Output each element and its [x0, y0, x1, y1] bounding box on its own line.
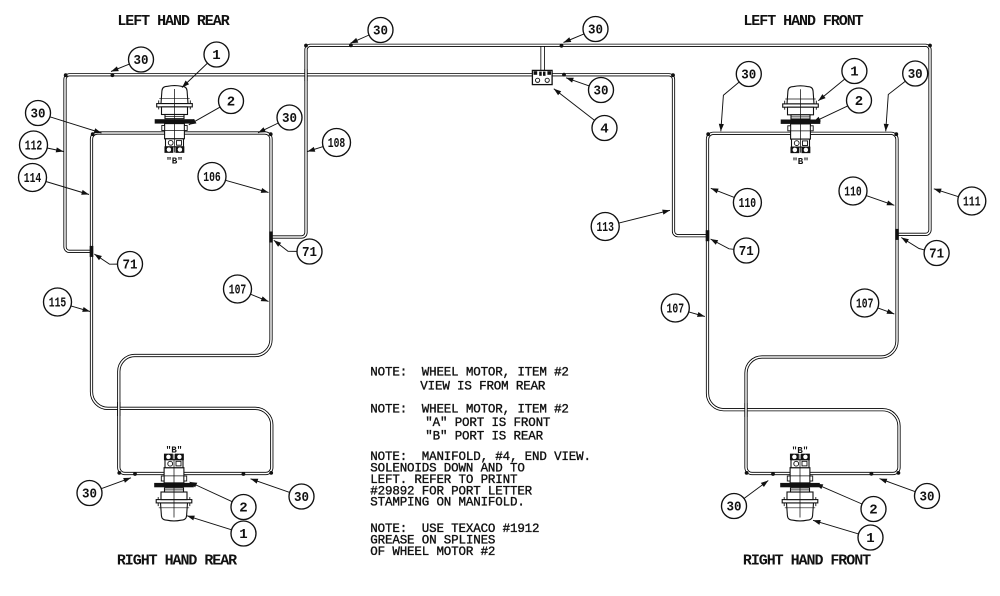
svg-text:106: 106: [203, 170, 221, 186]
svg-text:NOTE: WHEEL MOTOR, ITEM #2: NOTE: WHEEL MOTOR, ITEM #2: [370, 403, 568, 417]
svg-text:LEFT HAND REAR: LEFT HAND REAR: [117, 13, 229, 30]
svg-text:107: 107: [229, 283, 247, 299]
svg-text:113: 113: [596, 220, 614, 236]
svg-text:71: 71: [739, 244, 754, 260]
svg-text:1: 1: [866, 531, 874, 547]
svg-text:114: 114: [24, 171, 42, 187]
svg-text:110: 110: [739, 196, 757, 212]
svg-text:RIGHT HAND REAR: RIGHT HAND REAR: [117, 553, 237, 570]
svg-text:30: 30: [741, 68, 756, 84]
svg-text:NOTE: WHEEL MOTOR, ITEM #2: NOTE: WHEEL MOTOR, ITEM #2: [370, 366, 568, 380]
svg-text:"B": "B": [792, 445, 809, 456]
svg-text:111: 111: [963, 195, 981, 211]
svg-text:VIEW IS FROM REAR: VIEW IS FROM REAR: [420, 379, 546, 393]
svg-text:30: 30: [282, 111, 297, 127]
svg-text:30: 30: [31, 107, 46, 123]
svg-text:30: 30: [908, 67, 923, 83]
svg-text:2: 2: [227, 95, 235, 111]
svg-text:30: 30: [727, 500, 742, 516]
svg-text:108: 108: [328, 136, 346, 152]
svg-text:"A" PORT IS FRONT: "A" PORT IS FRONT: [425, 416, 551, 430]
svg-text:112: 112: [25, 139, 43, 155]
svg-text:30: 30: [920, 490, 935, 506]
svg-text:2: 2: [855, 94, 863, 110]
svg-text:71: 71: [302, 245, 317, 261]
svg-text:4: 4: [600, 122, 608, 138]
svg-text:115: 115: [49, 296, 67, 312]
svg-text:2: 2: [239, 501, 247, 517]
svg-text:LEFT HAND FRONT: LEFT HAND FRONT: [743, 13, 863, 30]
svg-text:1: 1: [212, 48, 220, 64]
svg-text:30: 30: [134, 53, 149, 69]
svg-text:"B": "B": [792, 156, 809, 167]
svg-text:30: 30: [588, 23, 603, 39]
svg-text:71: 71: [123, 258, 138, 274]
svg-text:"B" PORT IS REAR: "B" PORT IS REAR: [425, 429, 543, 443]
svg-text:OF WHEEL MOTOR #2: OF WHEEL MOTOR #2: [370, 545, 495, 559]
svg-text:30: 30: [373, 24, 388, 40]
svg-text:107: 107: [856, 297, 874, 313]
svg-text:RIGHT HAND FRONT: RIGHT HAND FRONT: [743, 553, 871, 570]
svg-text:71: 71: [929, 247, 944, 263]
svg-text:"B": "B": [166, 156, 183, 167]
svg-text:STAMPING ON MANIFOLD.: STAMPING ON MANIFOLD.: [370, 496, 524, 510]
svg-text:1: 1: [850, 65, 858, 81]
svg-text:2: 2: [869, 503, 877, 519]
svg-text:107: 107: [667, 302, 685, 318]
svg-text:110: 110: [844, 185, 862, 201]
svg-text:30: 30: [594, 84, 609, 100]
svg-text:"B": "B": [166, 445, 183, 456]
svg-text:30: 30: [294, 490, 309, 506]
svg-text:1: 1: [239, 527, 247, 543]
svg-text:30: 30: [82, 487, 97, 503]
